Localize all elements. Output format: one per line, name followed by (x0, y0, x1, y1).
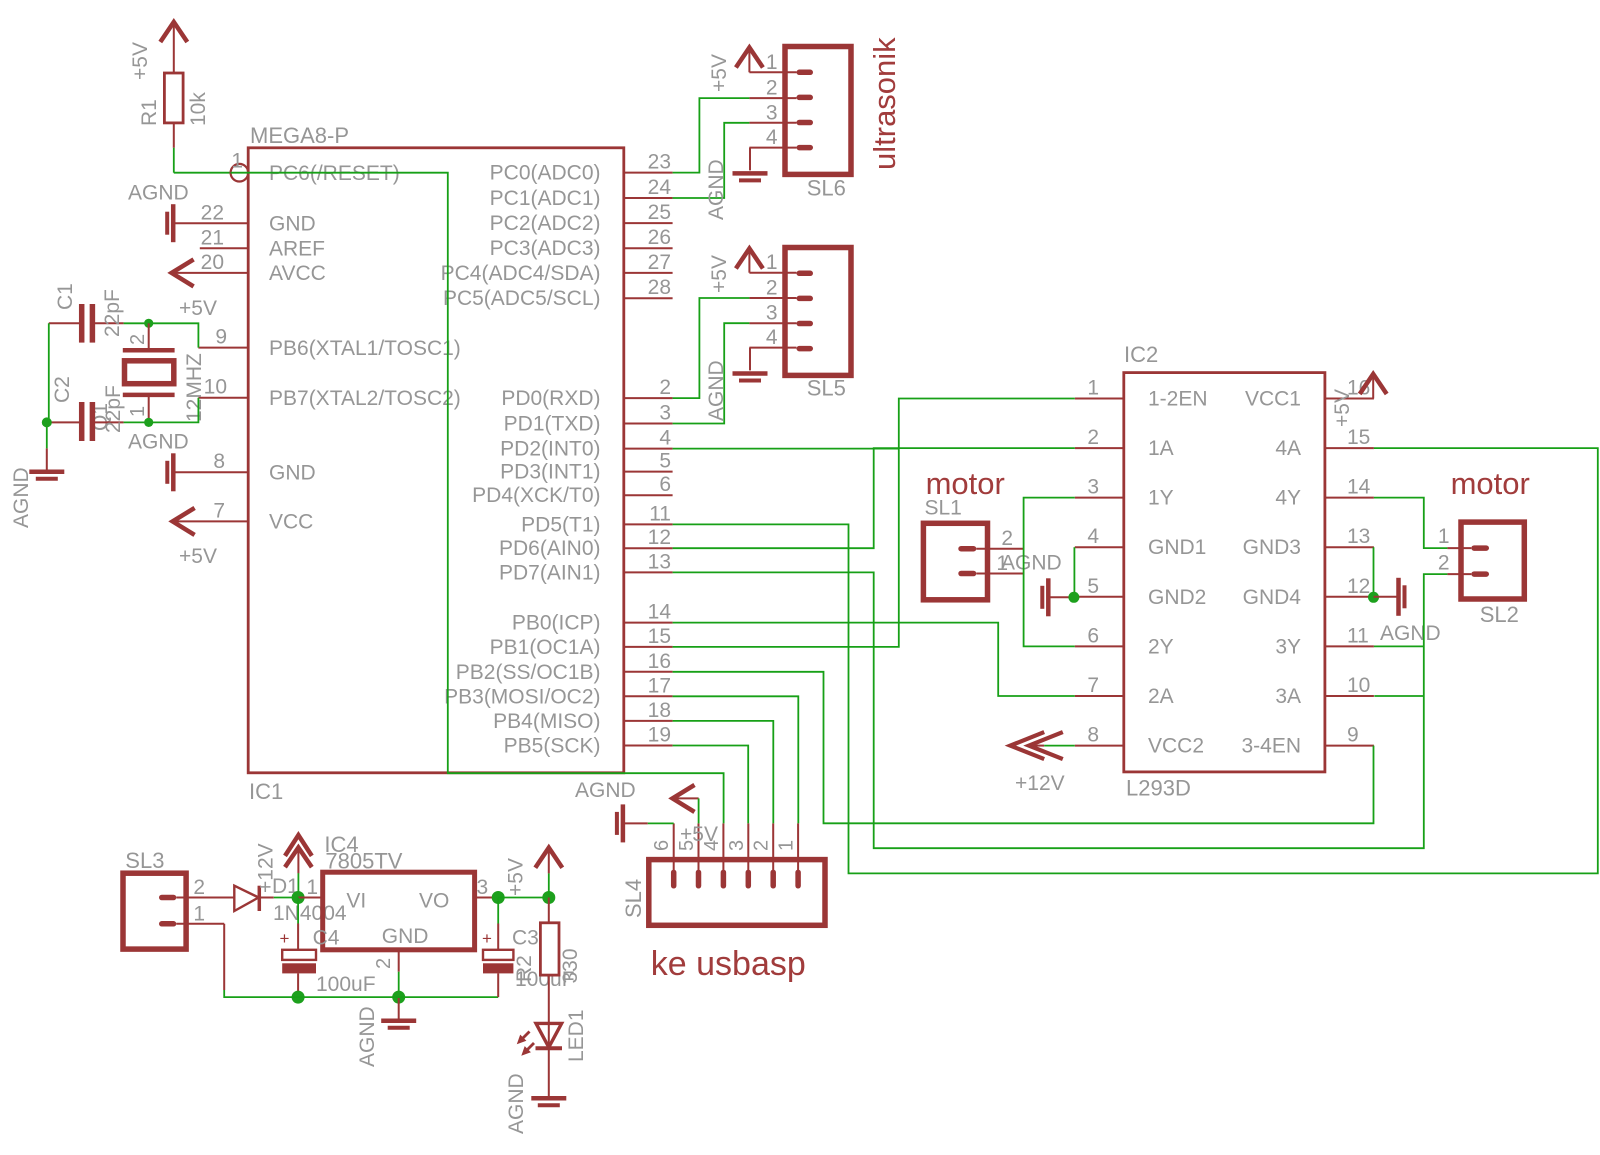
IC2 pin 13 GND3 (1243, 525, 1374, 559)
svg-text:2Y: 2Y (1148, 635, 1174, 658)
IC2 pin 11 3Y (1275, 624, 1374, 658)
wire PD1 net to SL5 pin 3 (673, 323, 750, 423)
svg-text:IC1: IC1 (249, 779, 283, 804)
svg-text:24: 24 (648, 176, 672, 199)
IC1 pin 4 PD2(INT0) (500, 427, 672, 461)
wire net RESET through IC1 to SL4 pin 4 (231, 173, 724, 824)
svg-text:27: 27 (648, 251, 671, 274)
svg-text:18: 18 (648, 699, 671, 722)
svg-text:3-4EN: 3-4EN (1241, 735, 1301, 758)
LED LED1 (517, 1009, 588, 1062)
svg-text:AGND: AGND (705, 159, 728, 220)
svg-text:MEGA8-P: MEGA8-P (250, 123, 349, 148)
IC1 pin 14 PB0(ICP) (512, 601, 673, 635)
svg-text:4: 4 (1087, 525, 1099, 548)
svg-text:12: 12 (648, 526, 671, 549)
svg-text:20: 20 (201, 251, 224, 274)
wire XTAL2 net from C2 to IC1 pin 10 (124, 398, 199, 423)
svg-text:PD5(T1): PD5(T1) (521, 513, 600, 536)
svg-text:VCC2: VCC2 (1148, 735, 1204, 758)
svg-text:ke usbasp: ke usbasp (651, 945, 806, 983)
svg-text:SL2: SL2 (1480, 602, 1519, 627)
wire net PB4 MISO to SL4 pin 2 (673, 721, 774, 824)
svg-text:10: 10 (1347, 674, 1370, 697)
wire GND3 to GND4 junction (1373, 547, 1375, 597)
wire net 1Y to SL1 pin 2 (1024, 498, 1075, 647)
svg-text:+: + (482, 929, 492, 948)
svg-text:13: 13 (1347, 525, 1370, 548)
svg-text:GND4: GND4 (1243, 586, 1302, 609)
svg-text:3: 3 (766, 101, 778, 124)
svg-text:PB7(XTAL2/TOSC2): PB7(XTAL2/TOSC2) (269, 387, 461, 410)
svg-text:+: + (280, 929, 290, 948)
IC IC2 L293D body (1124, 373, 1325, 772)
svg-text:GND1: GND1 (1148, 536, 1206, 559)
SL2 pin stubs and numbers (1438, 525, 1471, 575)
svg-text:PD3(INT1): PD3(INT1) (500, 461, 600, 484)
svg-text:4: 4 (659, 427, 671, 450)
supply +12V double arrow above D1 junction (285, 835, 312, 873)
svg-text:PD2(INT0): PD2(INT0) (500, 438, 600, 461)
svg-text:3A: 3A (1275, 685, 1301, 708)
IC2 pin 16 VCC1 (1245, 377, 1374, 411)
svg-text:6: 6 (651, 840, 673, 851)
capacitor C1 22pF (49, 283, 124, 342)
svg-text:2: 2 (751, 840, 773, 851)
svg-text:14: 14 (648, 601, 672, 624)
connector SL5 ultrasonik 2 (785, 248, 851, 401)
wire net RESET from R1 to IC1 pin1 (173, 148, 175, 173)
svg-text:1: 1 (193, 903, 205, 926)
svg-text:2: 2 (373, 958, 395, 969)
wire XTAL1 net from C1 to IC1 pin 9 (124, 323, 199, 347)
capacitor C4 100uF (280, 898, 376, 998)
IC1 pin 21 AREF (200, 227, 325, 261)
svg-text:VI: VI (346, 890, 366, 913)
svg-text:4Y: 4Y (1275, 487, 1301, 510)
IC2 pin 2 1A (1075, 426, 1174, 460)
svg-text:C1: C1 (54, 283, 77, 310)
svg-text:AGND: AGND (128, 182, 189, 205)
IC2 pin 5 GND2 (1075, 575, 1207, 609)
IC1 pin 26 PC3(ADC3) (490, 226, 673, 260)
svg-text:VCC1: VCC1 (1245, 388, 1301, 411)
svg-text:AVCC: AVCC (269, 262, 326, 285)
svg-text:C3: C3 (512, 927, 539, 950)
IC1 pin 25 PC2(ADC2) (490, 201, 673, 235)
IC1 pin 12 PD6(AIN0) (499, 526, 673, 560)
svg-text:11: 11 (1347, 624, 1369, 647)
junction node +5V at R2 (542, 891, 555, 904)
ground symbol AGND at SL5 pin 4 (705, 348, 768, 421)
svg-text:12MHZ: 12MHZ (183, 353, 206, 422)
junction node at crystal pin 2 (144, 319, 153, 328)
IC1 pin 6 PD4(XCK/T0) (472, 473, 672, 507)
svg-text:SL3: SL3 (125, 848, 164, 873)
wire net PB3 MOSI to SL4 pin 1 (673, 696, 799, 823)
SL1 pin stubs and numbers (976, 527, 1023, 575)
svg-text:PD0(RXD): PD0(RXD) (501, 387, 600, 410)
svg-text:25: 25 (648, 201, 671, 224)
IC2 pin 9 3-4EN (1241, 724, 1373, 758)
IC2 pin 1 1-2EN (1075, 377, 1208, 411)
IC1 pin 2 PD0(RXD) (501, 376, 672, 410)
wire net PD6 to 1A (673, 448, 1075, 548)
junction node GND4 (1368, 592, 1379, 603)
svg-text:2: 2 (1001, 527, 1013, 550)
svg-text:+12V: +12V (255, 843, 278, 893)
SL6 pin stubs and numbers (749, 51, 796, 149)
IC1 pin 7 VCC (173, 500, 314, 534)
supply +5V arrow at AVCC (172, 259, 217, 320)
ground rail wire from SL3 pin 1 (224, 924, 498, 997)
IC2 pin 7 2A (1075, 674, 1174, 708)
svg-text:2: 2 (766, 277, 778, 300)
IC1 pin 16 PB2(SS/OC1B) (456, 650, 673, 684)
svg-text:PB2(SS/OC1B): PB2(SS/OC1B) (456, 661, 601, 684)
junction node at crystal pin 1 (144, 418, 153, 427)
wire PC0 net to SL6 pin 2 (673, 98, 750, 173)
supply +5V arrow at SL5 pin 1 (708, 249, 763, 294)
IC1 pin 1 PC6(/RESET) with inversion circle (174, 150, 400, 186)
svg-text:21: 21 (201, 227, 224, 250)
connector SL4 ke usbasp (649, 860, 825, 926)
svg-text:22: 22 (201, 202, 224, 225)
wire net PD2 to 1-2EN (673, 448, 899, 450)
crystal Q1 12MHZ (89, 323, 206, 431)
svg-text:2: 2 (1438, 552, 1450, 575)
svg-text:GND: GND (269, 213, 316, 236)
svg-text:1: 1 (766, 251, 778, 274)
svg-text:2: 2 (1087, 426, 1099, 449)
junction node at IC4 VI (292, 891, 305, 904)
svg-text:+5V: +5V (1331, 389, 1354, 427)
supply +5V arrow at SL4 pin 5 (673, 785, 718, 846)
svg-text:1: 1 (231, 150, 243, 173)
svg-text:AGND: AGND (705, 360, 728, 421)
wire +12V to VCC2 (1044, 745, 1075, 747)
IC2 pin 4 GND1 (1075, 525, 1207, 559)
svg-text:1-2EN: 1-2EN (1148, 388, 1208, 411)
svg-text:23: 23 (648, 151, 671, 174)
svg-text:AREF: AREF (269, 238, 325, 261)
capacitor C3 100uF (482, 898, 575, 998)
svg-text:1: 1 (766, 51, 778, 74)
svg-text:13: 13 (648, 550, 671, 573)
svg-text:9: 9 (215, 326, 227, 349)
svg-text:2: 2 (659, 376, 671, 399)
connector SL1 motor left (923, 497, 987, 600)
svg-text:PB4(MISO): PB4(MISO) (493, 710, 600, 733)
svg-text:PC5(ADC5/SCL): PC5(ADC5/SCL) (443, 287, 601, 310)
supply +12V double arrow at IC2 VCC2 (1010, 732, 1064, 795)
IC1 pin 5 PD3(INT1) (500, 450, 672, 484)
supply +5V arrow at IC2 VCC1 (1331, 374, 1387, 427)
svg-text:1N4004: 1N4004 (273, 902, 347, 925)
svg-text:+5V: +5V (179, 297, 217, 320)
junction node IC4 GND on rail (392, 991, 405, 1004)
svg-text:+5V: +5V (505, 858, 528, 896)
wire net PB0 to 2A (673, 623, 1075, 696)
svg-text:motor: motor (1451, 466, 1530, 501)
svg-text:3Y: 3Y (1275, 635, 1301, 658)
SL5 pin stubs and numbers (749, 251, 796, 349)
svg-text:SL5: SL5 (807, 376, 846, 401)
connector SL2 motor right (1461, 522, 1524, 627)
svg-text:PB6(XTAL1/TOSC1): PB6(XTAL1/TOSC1) (269, 337, 461, 360)
supply +5V arrow above R2 (535, 848, 562, 898)
IC1 pin 3 PD1(TXD) (504, 402, 673, 436)
svg-text:+5V: +5V (129, 42, 152, 80)
wire net PB2 to 3-4EN (673, 672, 1374, 824)
svg-text:PC2(ADC2): PC2(ADC2) (490, 212, 601, 235)
IC2 pin 6 2Y (1075, 624, 1174, 658)
svg-text:28: 28 (648, 276, 671, 299)
resistor R1 10k (138, 73, 210, 148)
svg-text:22pF: 22pF (102, 385, 125, 433)
svg-text:1: 1 (1087, 377, 1099, 400)
IC2 pin 15 4A (1275, 426, 1374, 460)
svg-text:1Y: 1Y (1148, 487, 1174, 510)
svg-text:R2: R2 (513, 955, 536, 982)
ground symbol AGND at IC2 GND4 (1374, 578, 1441, 645)
ground symbol AGND below LED1 (505, 1048, 566, 1134)
wire net 3Y to SL2 pin 2 branch (1374, 645, 1424, 647)
svg-text:2: 2 (766, 77, 778, 100)
IC1 pin 22 GND (173, 202, 315, 236)
svg-text:PC4(ADC4/SDA): PC4(ADC4/SDA) (441, 262, 601, 285)
IC1 pin 18 PB4(MISO) (493, 699, 672, 733)
svg-text:IC2: IC2 (1124, 342, 1158, 367)
svg-text:PD4(XCK/T0): PD4(XCK/T0) (472, 484, 600, 507)
svg-text:15: 15 (1347, 426, 1370, 449)
svg-text:PD7(AIN1): PD7(AIN1) (499, 561, 601, 584)
svg-text:+12V: +12V (1015, 772, 1065, 795)
ground symbol AGND at IC1 pin 8 (128, 431, 189, 492)
svg-text:PB5(SCK): PB5(SCK) (504, 735, 601, 758)
svg-text:1: 1 (776, 840, 798, 851)
svg-text:AGND: AGND (505, 1073, 528, 1134)
diode D1 1N4004 (234, 875, 347, 925)
junction node GND2 (1068, 592, 1079, 603)
svg-text:6: 6 (1087, 624, 1099, 647)
svg-text:AGND: AGND (10, 467, 33, 528)
voltage regulator IC4 7805TV (298, 832, 498, 969)
IC1 pin 13 PD7(AIN1) (499, 550, 673, 584)
IC2 pin 10 3A (1275, 674, 1374, 708)
svg-text:GND: GND (382, 925, 429, 948)
supply +5V arrow above R1 (129, 22, 187, 80)
svg-text:AGND: AGND (575, 779, 636, 802)
IC2 pin 14 4Y (1275, 476, 1374, 510)
svg-text:AGND: AGND (1001, 552, 1062, 575)
IC1 pin 15 PB1(OC1A) (490, 625, 673, 659)
svg-text:VO: VO (419, 890, 449, 913)
svg-text:3: 3 (659, 402, 671, 425)
wire net 3A to SL2 vertical (1374, 695, 1424, 697)
ground symbol AGND at SL6 pin 4 (705, 148, 768, 220)
capacitor C2 22pF (47, 376, 125, 441)
svg-text:PC3(ADC3): PC3(ADC3) (490, 237, 601, 260)
supply +5V arrow at VCC pin 7 (173, 508, 217, 568)
svg-text:PB3(MOSI/OC2): PB3(MOSI/OC2) (444, 685, 600, 708)
SL4 pin stubs and rotated numbers (651, 823, 798, 872)
svg-text:15: 15 (648, 625, 671, 648)
svg-text:1: 1 (127, 406, 149, 417)
svg-text:330: 330 (559, 948, 582, 983)
wire PD0 net to SL5 pin 2 (673, 298, 750, 398)
svg-text:1A: 1A (1148, 437, 1174, 460)
svg-text:7: 7 (213, 500, 225, 523)
IC4 GND pin to ground rail (398, 950, 400, 997)
resistor R2 330 (513, 898, 582, 1023)
svg-text:2A: 2A (1148, 685, 1174, 708)
svg-text:11: 11 (649, 502, 671, 525)
svg-text:22pF: 22pF (101, 289, 124, 337)
svg-text:PB1(OC1A): PB1(OC1A) (490, 636, 601, 659)
IC IC1 MEGA8-P body (248, 148, 624, 773)
IC2 pin 8 VCC2 (1075, 724, 1204, 758)
junction node C4 on rail (292, 991, 305, 1004)
svg-text:+5V: +5V (179, 545, 217, 568)
ground symbol AGND at IC1 pin 22 (128, 182, 189, 243)
svg-text:ultrasonik: ultrasonik (867, 37, 902, 170)
svg-text:4: 4 (766, 126, 778, 149)
junction node C2 left (42, 417, 52, 427)
svg-text:3: 3 (766, 302, 778, 325)
svg-text:19: 19 (648, 724, 671, 747)
svg-text:10k: 10k (187, 92, 210, 126)
svg-text:GND2: GND2 (1148, 586, 1206, 609)
IC1 pin 24 PC1(ADC1) (490, 176, 673, 210)
svg-text:9: 9 (1347, 724, 1359, 747)
svg-text:4A: 4A (1275, 437, 1301, 460)
svg-text:GND: GND (269, 462, 316, 485)
svg-text:100uF: 100uF (316, 973, 376, 996)
svg-text:PD1(TXD): PD1(TXD) (504, 413, 601, 436)
IC2 pin 12 GND4 (1243, 575, 1374, 609)
svg-text:6: 6 (659, 473, 671, 496)
wire net PD7 to SL2 pin 2 (673, 572, 1448, 848)
svg-text:7805TV: 7805TV (325, 849, 402, 874)
svg-text:SL6: SL6 (807, 176, 846, 201)
svg-text:AGND: AGND (128, 431, 189, 454)
ground symbol AGND at IC2 GND2 (1042, 578, 1073, 616)
IC1 pin 20 AVCC (172, 251, 326, 285)
svg-text:14: 14 (1347, 476, 1371, 499)
svg-text:8: 8 (1087, 724, 1099, 747)
svg-text:3: 3 (726, 840, 748, 851)
svg-text:17: 17 (648, 674, 671, 697)
svg-text:PD6(AIN0): PD6(AIN0) (499, 537, 601, 560)
svg-text:PC0(ADC0): PC0(ADC0) (490, 162, 601, 185)
IC1 pin 10 PB7(XTAL2/TOSC2) (198, 376, 460, 411)
IC1 pin 28 PC5(ADC5/SCL) (443, 276, 673, 310)
svg-text:SL4: SL4 (621, 879, 646, 918)
IC1 pin 8 GND (173, 450, 315, 485)
svg-text:10: 10 (204, 376, 227, 399)
svg-text:+5V: +5V (708, 54, 731, 92)
svg-text:16: 16 (648, 650, 671, 673)
IC2 pin 3 1Y (1075, 476, 1174, 510)
svg-text:26: 26 (648, 226, 671, 249)
IC1 pin 27 PC4(ADC4/SDA) (441, 251, 673, 285)
svg-text:AGND: AGND (356, 1006, 379, 1067)
IC1 pin 23 PC0(ADC0) (490, 151, 673, 185)
supply +5V arrow at SL6 pin 1 (708, 48, 763, 93)
wire +5V to SL4 pin 5 (698, 798, 700, 823)
wire D1 cathode to IC4 VI (274, 873, 299, 897)
svg-text:L293D: L293D (1126, 776, 1191, 801)
svg-text:C2: C2 (51, 376, 74, 403)
svg-text:GND3: GND3 (1243, 536, 1301, 559)
wire between C1 and C2 left side (47, 323, 49, 448)
connector SL3 power input (123, 848, 186, 949)
wire net OC1A vertical to 1-2EN (673, 399, 1075, 647)
wire net PD5 to 4A (673, 448, 1598, 873)
wire ground to SL4 pin 6 (648, 822, 674, 824)
junction node at IC4 VO (492, 891, 505, 904)
svg-text:PC1(ADC1): PC1(ADC1) (490, 187, 601, 210)
wire net PB5 SCK to SL4 pin 3 (673, 746, 749, 824)
svg-text:3: 3 (1087, 476, 1099, 499)
svg-text:+5V: +5V (708, 255, 731, 293)
svg-text:VCC: VCC (269, 511, 313, 534)
svg-text:7: 7 (1087, 674, 1099, 697)
wire VO to +5V node (498, 897, 549, 899)
svg-text:8: 8 (213, 450, 225, 473)
svg-text:5: 5 (1087, 575, 1099, 598)
ground symbol AGND below IC4 (356, 997, 416, 1067)
SL3 pin stubs and numbers (176, 876, 234, 926)
wire GND1 to GND2 junction (1073, 547, 1075, 597)
svg-text:5: 5 (659, 450, 671, 473)
svg-text:1: 1 (1438, 525, 1450, 548)
svg-text:12: 12 (1347, 575, 1370, 598)
svg-text:motor: motor (926, 466, 1005, 501)
svg-text:3: 3 (477, 876, 489, 899)
wire PC1 net to SL6 pin 3 (673, 123, 750, 198)
svg-text:PB0(ICP): PB0(ICP) (512, 612, 601, 635)
svg-text:LED1: LED1 (565, 1009, 588, 1062)
svg-text:2: 2 (127, 334, 149, 345)
svg-text:+5V: +5V (680, 823, 718, 846)
svg-text:AGND: AGND (1380, 622, 1441, 645)
ground symbol AGND below C2 (10, 448, 64, 528)
IC1 pin 19 PB5(SCK) (504, 724, 673, 758)
svg-text:2: 2 (193, 876, 205, 899)
ground symbol AGND at SL4 pin 6 (575, 779, 648, 842)
svg-text:1: 1 (306, 876, 318, 899)
IC1 pin 9 PB6(XTAL1/TOSC1) (198, 326, 460, 361)
connector SL6 ultrasonik (785, 47, 851, 201)
svg-text:4: 4 (766, 326, 778, 349)
svg-text:R1: R1 (138, 99, 161, 126)
IC1 pin 17 PB3(MOSI/OC2) (444, 674, 672, 708)
wire net 4Y to SL2 pin 1 (1374, 498, 1448, 548)
IC1 pin 11 PD5(T1) (521, 502, 672, 536)
svg-text:C4: C4 (313, 927, 340, 950)
